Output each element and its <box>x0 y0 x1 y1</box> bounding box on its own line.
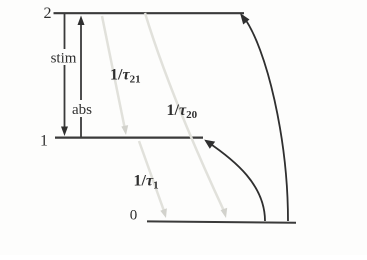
faint decay line 1/tau20 (2 to 0) <box>145 13 224 211</box>
faint decay line 1/tau21 (2 to 1) <box>102 16 125 127</box>
arrowhead of big curve at level 2 <box>240 13 250 25</box>
level 2 <box>54 12 245 14</box>
stim arrow (2 to 1, arrowhead down) <box>64 14 66 49</box>
svg-text:abs: abs <box>72 102 92 118</box>
pump curve 0 to 2 (big curve) <box>243 16 288 221</box>
svg-text:0: 0 <box>130 208 138 224</box>
curve 0 to 1 (small curve) <box>207 142 265 222</box>
abs arrow (1 to 2, arrowhead up) <box>80 23 82 100</box>
arrowhead of small curve at level 1 <box>204 140 215 149</box>
level 0 <box>147 221 296 222</box>
svg-text:1: 1 <box>40 133 48 150</box>
faint decay line 1/tau1 (1 to 0) <box>139 141 164 211</box>
svg-text:stim: stim <box>51 51 77 67</box>
level 1 <box>55 137 203 139</box>
svg-text:2: 2 <box>44 5 52 22</box>
